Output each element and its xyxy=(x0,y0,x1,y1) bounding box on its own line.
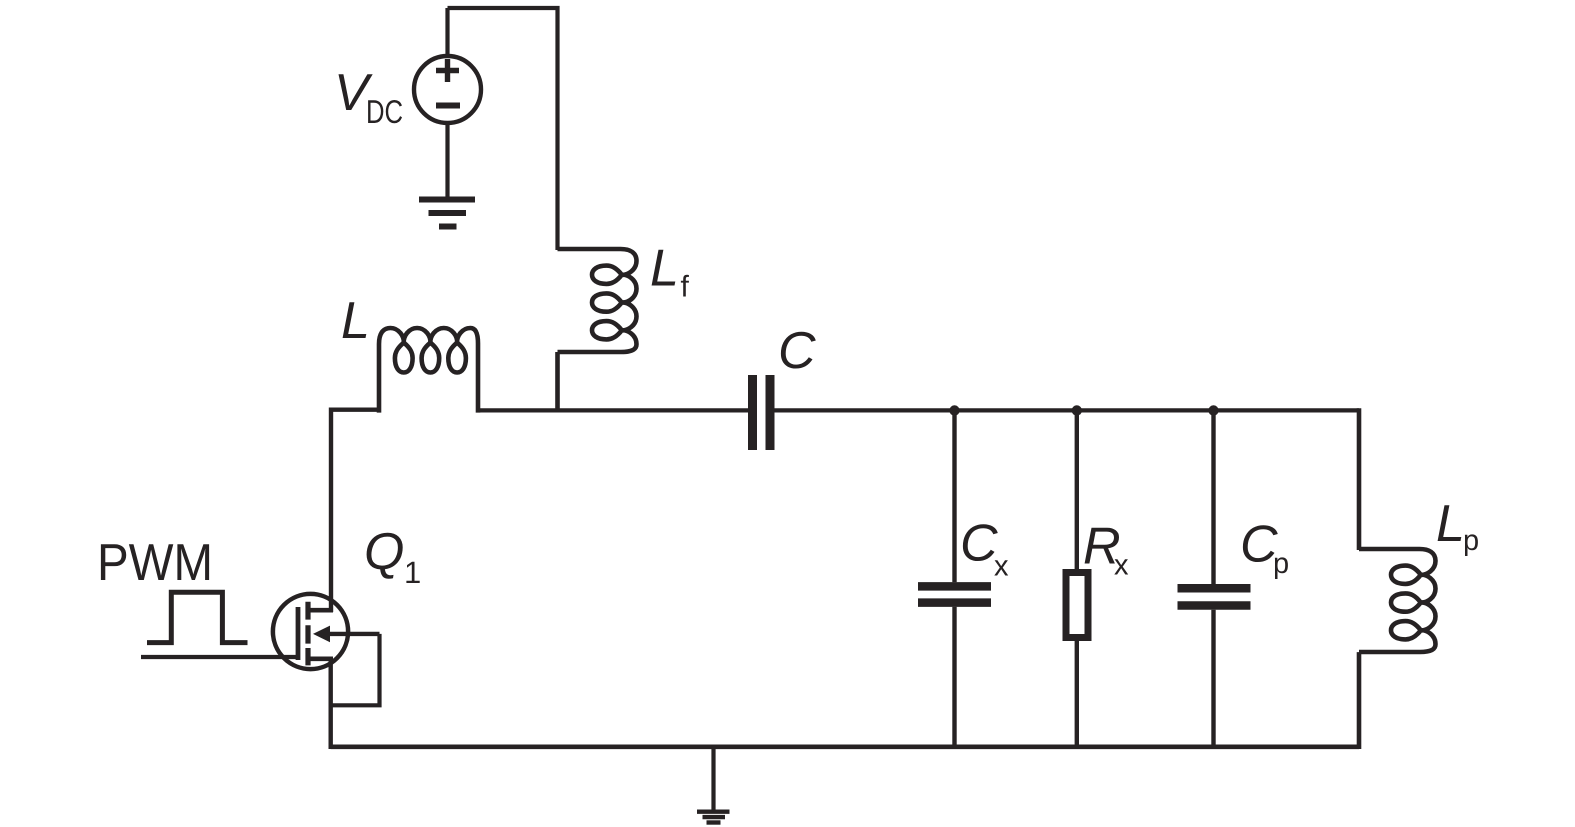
label Cx subscript x xyxy=(994,560,1008,575)
wire bottom rail xyxy=(331,744,1359,749)
label Cp xyxy=(1243,525,1278,562)
wire main rail right segment xyxy=(774,408,1360,412)
transistor Q1 drain wire and top-left corner xyxy=(331,410,379,612)
Q1 body arrow wire xyxy=(322,632,380,636)
Q1 source bar xyxy=(306,656,333,661)
capacitor C xyxy=(748,375,757,450)
label Lf xyxy=(652,250,676,286)
wire VDC positive lead xyxy=(445,8,449,57)
resistor Rx xyxy=(1066,573,1088,638)
label Rx subscript x xyxy=(1114,559,1128,574)
label PWM xyxy=(101,544,209,580)
label VDC subscript DC xyxy=(368,100,402,123)
ground at bottom rail stub xyxy=(711,747,715,810)
Q1 drain bar xyxy=(306,608,333,613)
PWM pulse symbol xyxy=(147,592,248,642)
node junction dot right xyxy=(1208,405,1218,415)
resistor Rx wire upper xyxy=(1075,410,1079,570)
label L xyxy=(343,302,367,338)
Q1 body-source loop wire xyxy=(331,634,380,705)
label Rx xyxy=(1085,528,1119,564)
label C xyxy=(781,332,816,369)
label Cp subscript p xyxy=(1275,557,1288,579)
capacitor Cp xyxy=(1178,584,1251,593)
capacitor Cx wire lower xyxy=(952,607,956,747)
inductor L xyxy=(379,328,478,413)
Q1 source wire down xyxy=(329,659,333,749)
wire VDC negative lead xyxy=(445,123,449,197)
label Lp subscript p xyxy=(1465,534,1478,556)
Q1 channel segments xyxy=(305,602,310,666)
inductor Lp branch xyxy=(1359,408,1436,749)
label Cx xyxy=(963,524,998,561)
label Lf subscript f xyxy=(681,275,689,297)
transistor Q1 body circle xyxy=(273,594,348,669)
inductor Lf xyxy=(558,249,637,413)
capacitor Cx wire upper xyxy=(952,410,956,582)
label Q1 subscript 1 xyxy=(406,562,419,583)
wire main rail left segment xyxy=(478,408,749,412)
label Lp xyxy=(1438,505,1462,541)
node junction dot left xyxy=(949,405,959,415)
capacitor Cx xyxy=(918,582,991,591)
gate wire from PWM xyxy=(141,655,296,659)
capacitor Cp wire upper xyxy=(1211,410,1215,584)
voltage source VDC xyxy=(414,56,481,123)
ground below VDC xyxy=(419,197,475,203)
resistor Rx wire lower xyxy=(1075,640,1079,748)
capacitor Cp wire lower xyxy=(1211,610,1215,747)
node junction dot middle xyxy=(1072,405,1082,415)
Q1 body arrow head xyxy=(313,626,330,643)
ground at bottom bars xyxy=(697,810,730,814)
wire top from VDC to Lf branch xyxy=(448,8,558,250)
label Q1 xyxy=(367,533,403,579)
Q1 gate bar xyxy=(296,607,301,660)
label VDC xyxy=(339,74,373,110)
